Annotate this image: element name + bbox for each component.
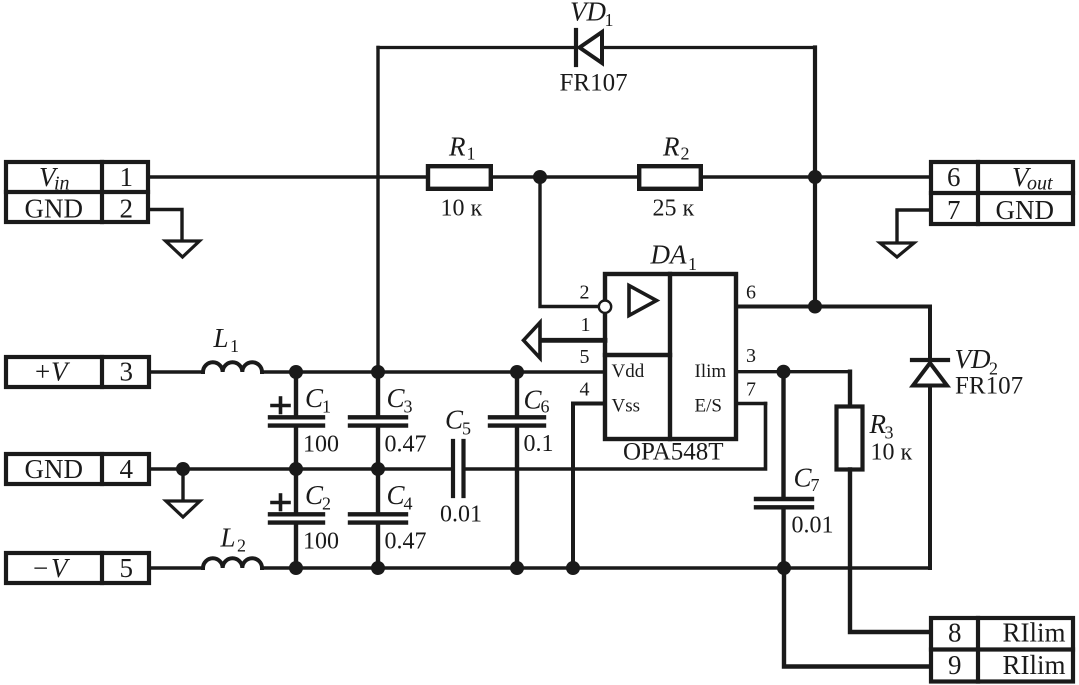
connector X1 Vin/GND <box>6 162 148 222</box>
svg-text:0.01: 0.01 <box>440 502 482 528</box>
resistor R2 <box>639 166 701 189</box>
wire +V to L1 <box>151 370 203 373</box>
wire stub to ground <box>181 469 184 501</box>
svg-text:Vdd: Vdd <box>612 361 645 382</box>
capacitor C3 <box>350 372 406 469</box>
node pin3 junction <box>777 365 791 379</box>
connector X2 Vout/GND <box>931 162 1073 224</box>
svg-text:GND: GND <box>25 193 84 223</box>
capacitor C7 <box>756 372 812 568</box>
wire pin3 Ilim <box>736 370 850 373</box>
svg-text:in: in <box>54 173 70 195</box>
svg-text:1: 1 <box>467 144 476 164</box>
node +V C1 <box>289 365 303 379</box>
connector X3 +V <box>6 357 149 387</box>
node -V C6 <box>510 561 524 575</box>
svg-text:RIlim: RIlim <box>1003 618 1066 648</box>
wire Vin pin1 to R1 <box>148 175 426 178</box>
svg-text:6: 6 <box>746 282 756 304</box>
svg-text:GND: GND <box>996 195 1055 225</box>
capacitor C2 <box>270 469 323 568</box>
connector X4 GND <box>6 454 149 484</box>
node -V Vss <box>566 561 580 575</box>
resistor R3 <box>837 407 863 470</box>
svg-text:3: 3 <box>120 357 134 387</box>
connector X6 RIlim 8/9 <box>931 618 1073 682</box>
node -V C4 <box>371 561 385 575</box>
wire Vin GND pin2 to ground <box>148 210 182 242</box>
wire C7 node to connector 9 <box>784 568 929 667</box>
svg-text:0.1: 0.1 <box>524 431 554 457</box>
node GND C1C2 <box>289 462 303 476</box>
op-amp U1 OPA548T body <box>605 274 736 439</box>
pin 1 arrow <box>524 323 606 359</box>
svg-text:1: 1 <box>605 10 614 30</box>
svg-text:4: 4 <box>404 494 413 514</box>
svg-text:1: 1 <box>581 314 591 336</box>
wire output vertical <box>813 48 817 307</box>
svg-text:E/S: E/S <box>695 396 722 417</box>
capacitor C4 <box>350 469 406 568</box>
svg-text:L: L <box>220 523 236 553</box>
svg-text:R: R <box>448 132 466 162</box>
svg-text:OPA548T: OPA548T <box>623 439 724 466</box>
diode VD1 <box>576 30 602 65</box>
wire R3 bottom to connector 8 <box>850 470 929 633</box>
svg-text:4: 4 <box>120 454 134 484</box>
wire Vss pin4 <box>573 404 605 569</box>
svg-text:FR107: FR107 <box>560 70 628 97</box>
svg-text:VD: VD <box>955 344 991 374</box>
svg-text:6: 6 <box>541 397 550 417</box>
svg-text:7: 7 <box>811 475 820 495</box>
svg-text:−: − <box>33 553 48 583</box>
capacitor C6 <box>490 372 544 568</box>
inductor L1 <box>203 362 262 372</box>
wire pin6 to VD2 <box>736 307 930 359</box>
node +V C6 <box>510 365 524 379</box>
svg-text:FR107: FR107 <box>955 373 1023 400</box>
svg-text:10 к: 10 к <box>441 196 483 222</box>
svg-text:DA: DA <box>650 240 687 270</box>
wire R1 to R2 <box>493 175 637 178</box>
wire GND rail right to pin7 <box>466 404 766 470</box>
wire top horizontal to VD1 <box>378 46 576 49</box>
svg-text:+: + <box>35 357 50 387</box>
wire -V to L2 <box>151 566 203 569</box>
node GND C3C4 <box>371 462 385 476</box>
op-amp triangle symbol <box>629 286 657 316</box>
node output junction <box>808 170 822 184</box>
svg-text:VD: VD <box>570 0 606 27</box>
svg-text:Ilim: Ilim <box>695 361 727 382</box>
svg-text:1: 1 <box>120 162 134 192</box>
node GND symbol junction <box>176 462 190 476</box>
svg-text:Vss: Vss <box>612 396 641 417</box>
svg-text:0.01: 0.01 <box>792 513 834 539</box>
svg-text:2: 2 <box>681 144 690 164</box>
wire R2 to Vout connector <box>703 175 929 178</box>
wire Vout GND pin7 to ground <box>897 210 931 243</box>
ground (input) <box>166 241 200 257</box>
inductor L2 <box>203 558 262 568</box>
svg-text:100: 100 <box>303 529 339 555</box>
resistor R1 <box>428 166 491 189</box>
svg-text:5: 5 <box>120 553 134 583</box>
diode VD2 <box>912 360 948 386</box>
connector X5 -V <box>6 553 149 583</box>
svg-text:3: 3 <box>404 397 413 417</box>
node +V C3 <box>371 365 385 379</box>
svg-text:RIlim: RIlim <box>1003 650 1066 680</box>
svg-text:2: 2 <box>120 193 134 223</box>
svg-text:5: 5 <box>462 418 471 438</box>
ground (mid) <box>166 501 200 517</box>
wire R1R2 node down to pin2 <box>540 177 597 307</box>
svg-text:9: 9 <box>948 650 962 680</box>
wire VD1 to output vertical <box>602 46 815 49</box>
node -V C2 <box>289 561 303 575</box>
wire GND rail left <box>151 467 452 471</box>
svg-text:GND: GND <box>25 454 84 484</box>
svg-text:0.47: 0.47 <box>385 432 427 458</box>
node R1-R2 junction <box>533 170 547 184</box>
svg-text:25 к: 25 к <box>653 196 695 222</box>
svg-text:2: 2 <box>322 494 331 514</box>
svg-text:100: 100 <box>303 432 339 458</box>
svg-text:4: 4 <box>580 379 590 401</box>
svg-text:8: 8 <box>948 618 962 648</box>
svg-text:0.47: 0.47 <box>385 529 427 555</box>
svg-text:1: 1 <box>322 397 331 417</box>
node pin6 output <box>808 300 822 314</box>
svg-text:10 к: 10 к <box>871 440 913 466</box>
wire -V rail <box>262 566 930 570</box>
svg-text:R: R <box>662 132 680 162</box>
capacitor C1 <box>270 372 323 469</box>
svg-text:3: 3 <box>746 345 756 367</box>
ground (output) <box>880 243 914 257</box>
svg-text:5: 5 <box>580 346 590 368</box>
capacitor C5 <box>453 441 464 496</box>
svg-text:1: 1 <box>688 254 697 274</box>
node -V C7 <box>777 561 791 575</box>
wire to R3 top <box>848 372 852 406</box>
wire VD2 to -V rail <box>928 386 932 569</box>
wire +V rail <box>262 370 605 373</box>
wire pin7 E/S <box>736 402 766 406</box>
svg-text:L: L <box>213 323 229 353</box>
svg-text:1: 1 <box>230 336 239 356</box>
svg-text:2: 2 <box>237 536 246 556</box>
svg-text:2: 2 <box>580 282 590 304</box>
svg-text:7: 7 <box>947 195 961 225</box>
svg-text:out: out <box>1027 173 1053 195</box>
svg-text:6: 6 <box>947 162 961 192</box>
svg-text:7: 7 <box>746 379 756 401</box>
pin 2 inverting bubble <box>599 301 611 313</box>
wire top feedback left vertical <box>376 48 379 373</box>
